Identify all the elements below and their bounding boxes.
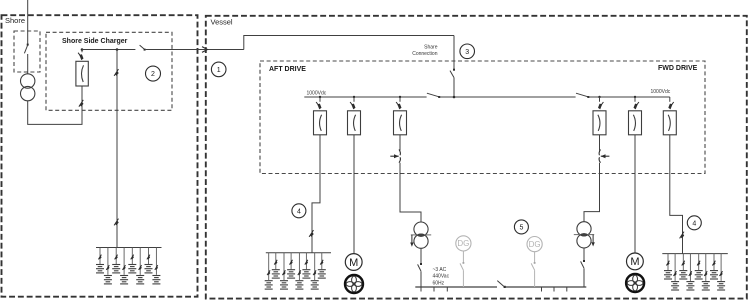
node battery feed tap — [116, 48, 119, 51]
AC bus spare stubs — [421, 287, 567, 292]
contactor battery feed fwd — [680, 232, 685, 239]
share connection switch — [450, 69, 455, 78]
propeller 1 — [345, 275, 363, 293]
AC bus left segment — [415, 286, 497, 288]
wire charger battery feed — [116, 50, 118, 248]
shore battery bank strings — [100, 248, 156, 275]
plug contact fwd — [599, 150, 609, 163]
callout 4 aft — [292, 204, 306, 218]
fwd battery bank strings — [668, 254, 721, 281]
wire breaker to transformer — [27, 54, 29, 74]
AFT converter 3 drop wire — [399, 97, 401, 102]
node dc bus junctions — [319, 96, 636, 99]
T2 core lens — [417, 234, 425, 237]
wire fwd converter2 to motor — [634, 135, 636, 253]
svg-text:FWD DRIVE: FWD DRIVE — [658, 65, 698, 72]
fwd battery bank bus — [662, 253, 728, 255]
callout 2 — [146, 66, 161, 81]
FWD converter 2 arrow — [634, 102, 639, 109]
wire converter3 upper stub — [399, 135, 401, 151]
svg-text:Share: Share — [424, 45, 438, 51]
propeller 2 — [626, 274, 644, 292]
svg-text:1: 1 — [217, 67, 221, 74]
T2 tap line — [411, 234, 431, 236]
fwd batteries — [664, 271, 725, 290]
aft batteries — [265, 270, 326, 289]
diesel generator DG1 — [456, 236, 471, 251]
svg-text:2: 2 — [151, 71, 155, 78]
svg-text:AFT DRIVE: AFT DRIVE — [269, 66, 306, 73]
node charger bus left — [81, 48, 84, 51]
AFT converter 1 arrow — [316, 102, 321, 109]
DC bus mid segment — [439, 96, 575, 98]
FWD converter 1 drop wire — [599, 97, 601, 102]
AFT converter 2 — [348, 111, 361, 135]
wire T2 to switch — [420, 248, 422, 263]
contactor below charger converter — [79, 100, 84, 107]
shore breaker dashed box — [14, 31, 40, 72]
motor M2 — [627, 253, 644, 270]
FWD converter 3 arrow — [668, 102, 673, 109]
diesel generator DG2 — [527, 237, 542, 252]
wire charger bus — [82, 49, 135, 51]
AFT converter 3 arrow — [396, 102, 401, 109]
svg-text:5: 5 — [519, 225, 523, 232]
wire converter1 to battery feed — [312, 135, 320, 253]
AFT/FWD drive dashed box — [260, 61, 705, 174]
FWD converter 3 drop wire — [669, 97, 671, 102]
svg-text:Vessel: Vessel — [211, 18, 233, 27]
callout 3 — [460, 44, 475, 59]
wire DG2 to switch — [534, 252, 536, 262]
AC bus tie switch — [497, 281, 506, 288]
wire fwd converter1 upper stub — [599, 135, 601, 151]
wire converter2 to motor — [353, 135, 355, 254]
contactor in charger on battery feed — [114, 69, 119, 76]
wire DG1 to ac bus — [462, 270, 464, 287]
DC bus tie switch AFT — [427, 93, 440, 98]
T3 tap arrow — [591, 235, 594, 247]
wire converter3 to transformer — [400, 163, 421, 223]
aft battery switches — [267, 260, 323, 275]
wire T3 to switch — [583, 248, 585, 260]
svg-text:~3 AC: ~3 AC — [433, 267, 447, 273]
contactor battery feed shore — [114, 219, 119, 226]
wire fwd converter3 to battery feed — [670, 135, 683, 254]
wire share connection drop — [453, 36, 455, 70]
svg-text:Connection: Connection — [412, 51, 438, 57]
wire fwd converter1 to transformer — [584, 163, 600, 222]
svg-text:1000Vdc: 1000Vdc — [307, 91, 327, 97]
DG2 switch — [531, 262, 535, 270]
AFT converter 1 — [314, 111, 327, 135]
propulsion transformer T3 — [577, 222, 591, 248]
shore breaker Q0 — [24, 44, 28, 54]
shore battery switches — [98, 255, 158, 270]
wire T3 switch to ac bus — [583, 268, 585, 287]
svg-text:Shore: Shore — [5, 16, 25, 25]
svg-text:60Hz: 60Hz — [433, 280, 445, 286]
propulsion transformer T2 — [414, 222, 428, 248]
wire transformer to charger converter — [28, 86, 82, 124]
charger converter input arrow — [78, 53, 83, 60]
plug contact aft — [390, 150, 400, 163]
T2 output switch — [418, 263, 422, 271]
FWD converter 2 drop wire — [634, 97, 636, 102]
T3 tap line — [574, 234, 594, 236]
charger converter U1 — [76, 61, 88, 86]
DC bus AFT segment — [304, 96, 426, 98]
T3 output switch — [581, 260, 585, 268]
motor M1 — [345, 254, 362, 271]
charger output switch — [140, 45, 146, 51]
FWD converter 3 — [663, 111, 676, 135]
callout 5 — [514, 220, 528, 234]
svg-text:440Vac: 440Vac — [433, 274, 450, 280]
shore battery bank bus — [96, 247, 162, 249]
contactor battery feed aft — [309, 230, 314, 237]
AFT converter 2 arrow — [350, 102, 355, 109]
T3 core lens — [580, 234, 588, 237]
callout 4 fwd — [687, 216, 701, 230]
wire converter top stub — [81, 50, 83, 53]
shore batteries — [96, 265, 160, 284]
wire DG1 to switch — [462, 251, 464, 262]
wire switch to dc bus — [453, 78, 455, 97]
aft battery bank bus — [266, 252, 331, 254]
FWD converter 1 — [593, 111, 606, 135]
svg-text:M: M — [349, 257, 358, 269]
svg-text:DG: DG — [529, 240, 541, 249]
svg-text:4: 4 — [692, 220, 696, 227]
plug contact aft arrow — [394, 154, 399, 158]
Shore dashed boundary box — [2, 15, 198, 297]
T2 tap arrow — [410, 235, 413, 247]
DC bus FWD segment — [588, 96, 670, 98]
AFT converter 1 drop wire — [319, 97, 321, 102]
svg-text:M: M — [630, 256, 639, 268]
FWD converter 1 arrow — [598, 102, 603, 109]
fwd battery switches — [666, 261, 722, 276]
DC bus tie switch FWD — [576, 93, 589, 98]
wire DG2 to ac bus — [534, 270, 536, 287]
wire T2 switch to ac bus — [420, 271, 422, 287]
svg-text:DG: DG — [457, 239, 469, 248]
plug contact fwd arrow — [601, 154, 606, 158]
AFT converter 2 drop wire — [353, 97, 355, 102]
AC bus right segment — [505, 286, 587, 288]
DG1 switch — [460, 262, 464, 270]
Vessel dashed boundary box — [206, 16, 747, 299]
arrow shore-vessel crossing — [202, 47, 207, 53]
aft battery bank strings — [269, 253, 322, 280]
svg-text:3: 3 — [465, 49, 469, 56]
wire shore incoming — [27, 0, 29, 44]
shore transformer T1 — [21, 74, 35, 101]
wire vessel top run — [244, 36, 454, 50]
svg-text:Shore Side Charger: Shore Side Charger — [62, 38, 128, 45]
wire charger to vessel — [146, 49, 244, 51]
svg-text:4: 4 — [297, 208, 301, 215]
callout 1 — [211, 62, 226, 77]
FWD converter 2 — [629, 111, 642, 135]
Shore Side Charger dashed box — [46, 32, 172, 110]
svg-text:1000Vdc: 1000Vdc — [651, 89, 671, 95]
AFT converter 3 — [394, 111, 407, 135]
